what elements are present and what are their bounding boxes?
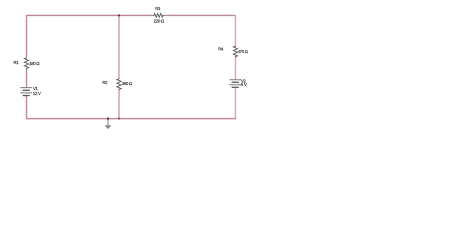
battery V1 (12 V source, left branch) bbox=[20, 88, 32, 96]
V2 plate long top (+) bbox=[229, 79, 241, 81]
V1 plate short bottom (-) bbox=[23, 95, 30, 97]
V2 plate long (+) bbox=[229, 84, 241, 86]
svg-text:R1: R1 bbox=[14, 60, 20, 65]
battery V2 (5 V source, right branch) bbox=[229, 80, 241, 88]
wire: middle branch upper (top wire to R2 top) bbox=[118, 15, 120, 78]
junction: middle branch to bottom wire bbox=[118, 118, 120, 120]
wire: middle branch lower (R2 bottom to bottom wire) bbox=[118, 90, 120, 119]
wire: right branch between R4 bottom and V2 top bbox=[234, 58, 236, 80]
wire: right branch upper (top wire to R4 top) bbox=[234, 15, 236, 45]
wire: top-right segment (R3 right to R4 top) bbox=[164, 14, 235, 16]
svg-text:R2: R2 bbox=[102, 80, 108, 85]
svg-text:390 Ω: 390 Ω bbox=[122, 81, 132, 86]
svg-text:12 V: 12 V bbox=[33, 91, 41, 96]
ground symbol (0 net, below bottom wire) bbox=[105, 119, 112, 130]
wire: left branch upper (top wire down to R1 top) bbox=[26, 15, 28, 57]
junction: middle branch to top wire bbox=[118, 14, 120, 16]
svg-text:220 Ω: 220 Ω bbox=[154, 18, 164, 23]
V2 plate short (-) bbox=[232, 81, 239, 83]
wire: top-left segment (node between V1+ and R3 left) bbox=[27, 14, 153, 16]
resistor R3 (220 ohm, top wire, horizontal) bbox=[152, 13, 164, 17]
svg-text:R4: R4 bbox=[218, 47, 224, 52]
wire: left branch between R1 bottom and V1 top bbox=[26, 69, 28, 87]
svg-text:470 Ω: 470 Ω bbox=[238, 49, 248, 54]
resistor R2 (390 ohm, middle branch) bbox=[117, 78, 121, 90]
svg-text:180 Ω: 180 Ω bbox=[29, 61, 39, 66]
wire: right branch lower (V2 bottom to bottom wire) bbox=[234, 88, 236, 119]
V1 plate short (-) bbox=[23, 89, 30, 91]
resistor R1 (180 ohm, left branch) bbox=[24, 57, 28, 69]
wire: bottom segment (ground net) bbox=[26, 118, 236, 120]
junction: ground stub on bottom wire bbox=[107, 117, 109, 119]
svg-text:5 V: 5 V bbox=[241, 82, 247, 87]
resistor R4 (470 ohm, right branch) bbox=[233, 45, 237, 57]
wire: left branch lower (V1 bottom to bottom wire) bbox=[26, 96, 28, 119]
V1 plate long (+) bbox=[20, 92, 32, 94]
V1 plate long top (+) bbox=[20, 87, 32, 89]
V2 plate short bottom (-) bbox=[232, 86, 239, 88]
svg-text:R3: R3 bbox=[155, 6, 161, 11]
